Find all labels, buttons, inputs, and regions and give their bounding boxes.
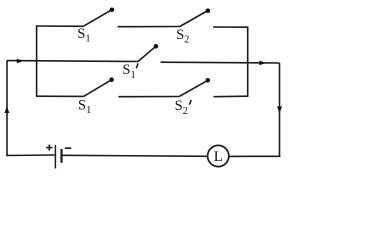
svg-text:S2: S2 [175, 98, 188, 117]
svg-text:S1: S1 [77, 26, 90, 45]
svg-text:L: L [214, 149, 223, 165]
svg-text:S2: S2 [176, 27, 189, 46]
svg-text:S1: S1 [122, 62, 135, 81]
svg-text:S1: S1 [78, 97, 91, 116]
